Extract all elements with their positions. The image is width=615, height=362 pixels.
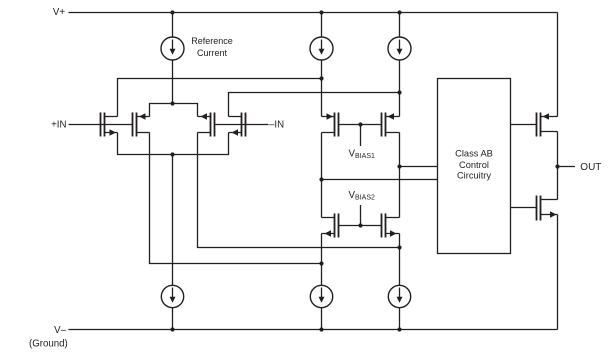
transistor M5 (upper-left cascode)	[322, 113, 339, 137]
wire left branch: M7 source to bottom current source I4	[321, 234, 323, 286]
svg-text:VBIAS1: VBIAS1	[349, 149, 375, 161]
svg-text:Circuitry: Circuitry	[457, 171, 491, 181]
node junction right branch / M3 drain	[397, 245, 401, 249]
node junction bottom rail / tail branch	[170, 327, 174, 331]
wire reference current source to input tail node	[172, 60, 174, 104]
wire M1 drain up and over to left branch (node A)	[118, 79, 322, 117]
wire M10 drain to OUT node	[557, 167, 559, 200]
wire control box to gate of M10	[511, 207, 537, 209]
wire M9 source to OUT node	[557, 132, 559, 167]
block U1 Class AB Control Circuitry	[438, 79, 511, 254]
wire right branch: current source to cascode M6 drain	[399, 60, 401, 117]
transistor M7 (lower-left cascode)	[322, 214, 339, 238]
transistor M1 (outer-left input pair)	[101, 113, 118, 137]
node junction top rail / left branch	[319, 10, 323, 14]
wire V+ rail to left branch current source	[321, 13, 323, 38]
transistor M10 (lower output, to V-)	[537, 196, 558, 221]
wire top tail rail (sources of M2 and M3)	[150, 104, 198, 117]
svg-text:+IN: +IN	[51, 120, 66, 131]
svg-text:OUT: OUT	[580, 162, 601, 173]
wire M2 drain down and over to left branch (node C)	[150, 133, 322, 264]
node junction top rail / right branch	[397, 10, 401, 14]
wire VBIAS1 stub	[360, 125, 362, 147]
wire left branch: M5 source to M7 drain	[321, 133, 323, 218]
node junction VBIAS1 stub / gate line	[358, 122, 362, 126]
svg-text:Current: Current	[197, 48, 228, 58]
svg-text:Control: Control	[459, 160, 489, 170]
node junction right branch / wire to control box	[397, 164, 401, 168]
svg-text:(Ground): (Ground)	[29, 338, 68, 349]
wire V- bottom rail	[69, 329, 558, 331]
node junction left branch / wire to control box	[319, 177, 323, 181]
current source I5 (right branch sink)	[388, 285, 410, 307]
current source I4 (left branch sink)	[310, 285, 332, 307]
wire VBIAS2 stub	[360, 205, 362, 226]
wire M4 drain up and over to right branch (node B)	[229, 93, 400, 117]
current source I1 (left branch)	[310, 37, 333, 60]
node junction VBIAS2 stub / gate line	[358, 223, 362, 227]
wire gate bias line of M7 and M8	[339, 225, 382, 227]
wire control box to gate of M9	[511, 124, 537, 126]
node OUT junction	[555, 164, 559, 168]
wire right branch to Class AB control box	[400, 166, 438, 168]
transistor M2 (inner-left input pair)	[133, 113, 150, 137]
current source I2 (right branch)	[388, 37, 411, 60]
wire +IN input to gates of M1 and M2	[69, 124, 133, 126]
transistor M8 (lower-right cascode)	[382, 214, 400, 238]
svg-text:Class AB: Class AB	[455, 149, 493, 159]
node junction left branch / M1 drain	[319, 76, 323, 80]
wire right branch: M8 source to bottom current source I5	[399, 234, 401, 286]
node junction bottom rail / left branch	[319, 327, 323, 331]
svg-text:V+: V+	[53, 7, 65, 18]
svg-text:Reference: Reference	[191, 36, 233, 46]
wire M10 source down to V- rail	[557, 215, 559, 330]
wire right branch: M6 source to M8 drain	[399, 133, 401, 218]
current source I_REF (reference current)	[161, 37, 184, 60]
wire V+ top rail	[69, 12, 558, 14]
svg-text:V–: V–	[54, 325, 66, 336]
wire left branch to Class AB control box	[322, 179, 438, 181]
node junction bottom tail rail / tail current branch	[170, 152, 174, 156]
svg-text:VBIAS2: VBIAS2	[349, 190, 375, 202]
wire I5 to bottom rail	[399, 308, 401, 330]
svg-text:–IN: –IN	[269, 120, 284, 131]
node junction left branch / M2 drain	[319, 261, 323, 265]
wire V+ rail to reference current source	[172, 13, 174, 38]
transistor M4 (outer-right input pair)	[229, 113, 246, 137]
transistor M3 (inner-right input pair)	[198, 113, 215, 137]
node junction right branch / M4 drain	[397, 90, 401, 94]
wire gate bias line of M5 and M6	[339, 124, 382, 126]
wire bottom tail rail (sources of M1 and M4)	[118, 133, 229, 155]
wire -IN input to gates of M3 and M4	[215, 124, 269, 126]
node junction top rail / reference branch	[170, 10, 174, 14]
wire OUT stub	[558, 166, 576, 168]
current source I3 (input tail current)	[161, 285, 183, 307]
transistor M6 (upper-right cascode)	[382, 113, 400, 137]
wire left branch: current source to cascode M5 drain	[321, 60, 323, 117]
node junction top tail rail / reference branch	[170, 101, 174, 105]
wire V+ rail to right branch current source	[399, 13, 401, 38]
node junction bottom rail / right branch	[397, 327, 401, 331]
wire M3 drain down and over to right branch (node D)	[198, 133, 400, 248]
transistor M9 (upper output, to V+)	[537, 113, 558, 137]
wire bottom tail rail to tail current source I3	[172, 155, 174, 286]
wire I4 to bottom rail	[321, 308, 323, 330]
wire V+ rail down to M9 drain	[557, 13, 559, 117]
wire I3 to bottom rail	[172, 308, 174, 330]
